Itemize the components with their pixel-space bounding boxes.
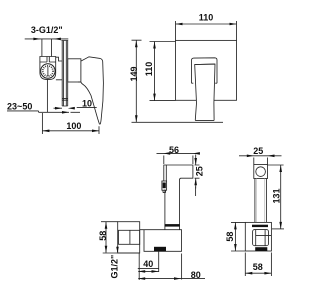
valve body outline	[40, 57, 56, 80]
dim 23~50 arrow line	[39, 111, 81, 112]
dim 110 left vertical line	[154, 42, 156, 101]
plate inner detail	[119, 230, 140, 244]
dim 10 leader line	[77, 107, 97, 109]
holder cup lip dark bar	[165, 224, 180, 227]
svg-text:58: 58	[225, 232, 235, 242]
nozzle tip	[163, 190, 166, 192]
dim 25 extension lines	[254, 158, 268, 165]
dim 10 arrows	[54, 107, 63, 109]
head inner face line	[165, 165, 167, 182]
svg-text:G1/2": G1/2"	[109, 255, 119, 279]
cartridge bottom lip	[78, 81, 81, 83]
holder cup front	[253, 230, 269, 246]
plate inner divider	[129, 230, 131, 244]
dim 56 line	[157, 152, 200, 154]
wall plate side view	[61, 41, 68, 107]
dim 80 extension line	[181, 254, 183, 280]
svg-text:110: 110	[199, 12, 214, 22]
dim 131 extension top	[268, 164, 284, 166]
arrow left-pointing at x=52.3	[54, 38, 61, 41]
dim 58 left line	[234, 222, 236, 251]
handle lever front	[195, 64, 215, 121]
extension line right of dim 100	[98, 126, 100, 134]
label G1/2 leader arrow	[117, 247, 119, 253]
nozzle dark face	[163, 183, 166, 189]
dim 100 line	[42, 130, 99, 132]
dim 58 extension lines	[101, 222, 140, 253]
handle front outer	[255, 179, 267, 230]
sprayer handle side	[165, 180, 180, 230]
dim 58 bottom line	[245, 272, 271, 274]
extension lines top	[176, 21, 237, 41]
dim 25 arrows	[195, 155, 197, 189]
dim 40 line	[138, 270, 158, 272]
wall plate side	[118, 222, 140, 253]
svg-text:58: 58	[253, 262, 263, 272]
arrow right-pointing at x=41.5	[33, 38, 40, 41]
dimension line 3-G1/2	[25, 38, 69, 40]
dim 25 extension lines	[195, 165, 200, 178]
svg-text:100: 100	[66, 121, 81, 131]
dim 110 top line	[176, 23, 237, 25]
handle lever inner top edge	[195, 63, 215, 65]
dim 25 shaft stub	[195, 187, 197, 197]
dim 56 extension lines	[164, 156, 193, 165]
holder plate front	[245, 222, 271, 251]
valve body top slot	[40, 57, 56, 63]
extension line left of dim 100	[41, 113, 43, 134]
inner dashed circle	[43, 66, 53, 76]
spray face circle	[256, 167, 266, 177]
dim 100 arrows	[42, 130, 49, 133]
dim 149 extension ticks	[132, 40, 224, 122]
dim 110 left extension ticks	[150, 42, 176, 101]
dim 58 left extension ticks	[231, 222, 245, 251]
handle front inner lines	[257, 179, 265, 225]
sprayer head front	[254, 165, 268, 179]
svg-text:3-G1/2": 3-G1/2"	[31, 25, 63, 35]
dim 40 extension lines	[139, 251, 159, 280]
handle cap bottom stubs	[192, 82, 218, 84]
escutcheon plate front	[176, 40, 237, 100]
svg-text:110: 110	[144, 62, 154, 77]
svg-text:40: 40	[143, 259, 153, 269]
svg-text:25: 25	[253, 146, 263, 156]
svg-text:23~50: 23~50	[7, 102, 32, 112]
dim 149 vertical line	[135, 40, 137, 122]
dim 58 bottom extension lines	[245, 253, 271, 277]
outlet dark block	[154, 247, 166, 251]
dim 58 left line	[105, 222, 107, 253]
svg-text:149: 149	[129, 66, 139, 81]
svg-text:131: 131	[272, 188, 282, 203]
handle lever side view	[81, 57, 104, 124]
svg-text:80: 80	[191, 270, 201, 280]
valve outlet centerline	[46, 80, 48, 113]
holder bottom dark block	[255, 247, 267, 251]
nozzle outline	[162, 181, 167, 190]
sprayer head side view	[164, 165, 193, 182]
handle cap front	[192, 58, 218, 83]
valve body step to plate	[56, 57, 62, 80]
dim 23~50 underline	[7, 110, 39, 112]
holder cup inner line	[256, 230, 272, 246]
inlet pipe lines	[42, 39, 52, 57]
svg-text:10: 10	[82, 98, 92, 108]
dim 25 line	[239, 155, 282, 157]
plate outlet detail	[62, 99, 67, 101]
cartridge housing	[68, 59, 81, 82]
dim 40 underline	[138, 268, 159, 270]
holder lip dark bar	[252, 225, 268, 227]
svg-text:58: 58	[98, 231, 108, 241]
cartridge circle	[41, 64, 55, 78]
svg-text:25: 25	[195, 166, 205, 176]
dim 131 extension bottom tick	[272, 228, 284, 230]
dim 131 line	[280, 165, 282, 229]
holder arm	[140, 230, 182, 252]
dim 80 line	[138, 278, 205, 280]
